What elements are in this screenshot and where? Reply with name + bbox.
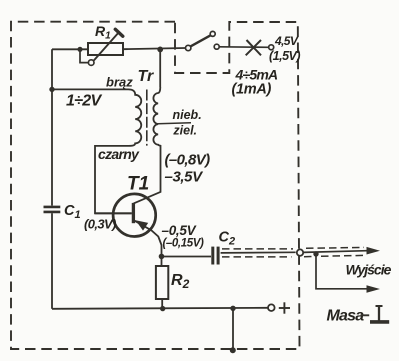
terminal circle plus	[268, 304, 275, 311]
node junction at R1 right / transformer secondary top	[157, 47, 163, 53]
transformer Tr primary winding (braz wire + winding + czarny wire to base)	[52, 89, 141, 213]
wire left vertical (bottom section)	[51, 213, 53, 309]
enclosure dashed border with top notch for switch	[11, 22, 300, 349]
terminal circle (R1 wiper)	[88, 60, 94, 66]
wire secondary top lead	[159, 49, 161, 87]
svg-text:(1mA): (1mA)	[232, 82, 272, 98]
node junction R2 bottom	[160, 306, 165, 311]
wire chassis branch down	[232, 308, 234, 350]
svg-text:nieb.: nieb.	[173, 108, 202, 122]
wire shield return with arrow	[316, 254, 380, 293]
svg-text:–3,5V: –3,5V	[165, 168, 205, 185]
svg-text:(–0,8V): (–0,8V)	[165, 151, 211, 168]
svg-text:(0,3V): (0,3V)	[84, 217, 116, 232]
shielded cable to connector (center solid + shield dashes)	[221, 249, 296, 257]
svg-text:(1,5V): (1,5V)	[269, 49, 300, 63]
cable after connector with output arrow	[303, 247, 380, 257]
svg-text:brąz: brąz	[106, 75, 133, 90]
node junction left rail / braz	[49, 87, 54, 92]
wire emitter node to C2	[162, 256, 212, 258]
wire ground rail bottom	[52, 308, 268, 309]
resistor R2	[156, 256, 168, 308]
svg-text:(–0,15V): (–0,15V)	[163, 237, 204, 249]
wire left vertical (top section, supply rail left)	[51, 49, 53, 205]
terminal circle output connector on enclosure	[297, 249, 303, 255]
node chassis connection dot on border	[230, 347, 236, 353]
resistor R1 wiper arrow	[94, 29, 123, 60]
node junction chassis branch	[230, 306, 235, 311]
transformer Tr core	[146, 90, 148, 146]
transformer secondary tap lead (nieb./ziel.)	[158, 123, 191, 124]
svg-text:Wyjście: Wyjście	[346, 262, 392, 278]
transformer Tr secondary winding and collector wire	[134, 87, 161, 203]
svg-text:T1: T1	[127, 173, 149, 194]
node junction emitter	[159, 254, 165, 260]
ground (chassis) symbol	[370, 306, 389, 322]
terminal circle (battery plus)	[269, 45, 274, 50]
wire top horizontal to R1	[52, 48, 88, 50]
svg-text:1÷2V: 1÷2V	[66, 92, 102, 109]
svg-text:Tr: Tr	[138, 68, 154, 85]
meter insertion point X	[246, 40, 261, 55]
node junction at R1 left	[77, 47, 82, 52]
node junction cable shield	[313, 251, 318, 256]
capacitor C2	[213, 247, 218, 265]
svg-text:ziel.: ziel.	[172, 124, 197, 138]
svg-text:–0,5V: –0,5V	[162, 223, 197, 238]
wire wiper tap to terminal	[80, 49, 88, 62]
svg-text:Masa: Masa	[327, 307, 365, 324]
wire switch to battery terminal	[219, 46, 268, 49]
switch S (lever with contacts)	[186, 31, 220, 50]
transistor T1	[95, 194, 162, 257]
svg-text:4÷5mA: 4÷5mA	[235, 66, 279, 82]
wire R1 to switch	[123, 48, 185, 49]
resistor R1 (variable, body)	[88, 43, 123, 55]
svg-text:czarny: czarny	[98, 146, 140, 162]
plus sign	[279, 302, 290, 313]
capacitor C1	[44, 207, 61, 212]
svg-text:4,5V: 4,5V	[274, 34, 299, 48]
dash before ground symbol	[361, 314, 370, 316]
